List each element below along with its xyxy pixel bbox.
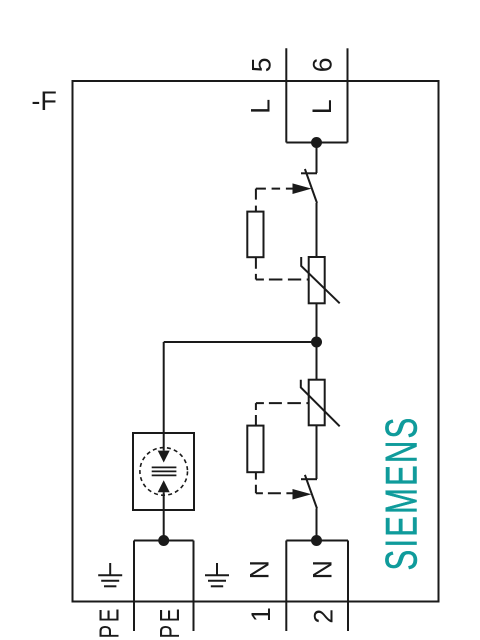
wire spark gap to PE node [163, 492, 165, 540]
varistor RV1 body [309, 257, 325, 303]
terminal lead 1 [285, 541, 287, 632]
node L junction [311, 137, 322, 148]
wire varistor RV2 to switch [316, 425, 318, 479]
enclosure box -F [73, 81, 439, 602]
terminal lead 6 [347, 48, 349, 142]
svg-text:SIEMENS: SIEMENS [377, 416, 427, 571]
wire node to PE branch horizontal [164, 341, 317, 343]
actuator arrow to switch F2 [293, 489, 312, 500]
terminal lead PE left [133, 541, 135, 632]
spark gap F3 box [133, 433, 194, 510]
resistor R1 dashed link to varistor RV1 [255, 257, 257, 279]
svg-text:N: N [308, 560, 338, 579]
svg-text:PE: PE [94, 606, 125, 639]
wire node to lower varistor [316, 342, 318, 380]
svg-text:-F: -F [31, 86, 56, 116]
switch F2 blade [305, 475, 317, 509]
wire N terminal bar [286, 540, 348, 542]
resistor R2 dashed link to varistor RV2 [255, 403, 257, 426]
ground symbol left [98, 563, 122, 586]
node mid junction [311, 337, 322, 348]
node PE junction [158, 535, 169, 546]
svg-text:PE: PE [155, 606, 186, 639]
svg-text:1: 1 [246, 607, 276, 622]
wire varistor to node [316, 303, 318, 342]
terminal lead 2 [347, 541, 349, 632]
wire L terminal bar [286, 142, 347, 144]
actuator arrow to switch F1 [293, 183, 312, 194]
svg-text:5: 5 [246, 58, 276, 73]
wire PE terminal bar [134, 540, 194, 542]
resistor R1 body [247, 212, 263, 258]
spark gap F3 dashed circle [140, 448, 188, 496]
svg-text:6: 6 [307, 58, 337, 73]
resistor R2 dashed link to switch F2 [255, 472, 257, 493]
node N junction [311, 535, 322, 546]
resistor R1 dashed link to switch F1 [255, 189, 257, 212]
wire PE branch vertical [163, 342, 165, 451]
switch F1 blade [305, 169, 317, 203]
switch F1 fixed contact tick [301, 172, 317, 174]
spark gap electrode plates [152, 467, 177, 475]
switch F2 fixed contact tick [301, 478, 317, 480]
spark gap top arrow [158, 451, 170, 463]
varistor RV2 diagonal [301, 380, 340, 427]
wire switch to varistor [316, 203, 318, 257]
ground symbol right [205, 563, 229, 586]
svg-text:N: N [245, 560, 275, 579]
svg-text:2: 2 [309, 609, 339, 624]
svg-text:L: L [307, 99, 337, 114]
resistor R2 body [247, 426, 263, 473]
terminal lead 5 [285, 48, 287, 142]
terminal lead PE right [193, 541, 195, 632]
wire switch F2 to N node [316, 509, 318, 541]
wire L bus upper [316, 143, 318, 174]
varistor RV2 body [309, 380, 325, 426]
spark gap bottom arrow [158, 480, 170, 492]
varistor RV1 diagonal [301, 257, 340, 303]
svg-text:L: L [246, 99, 276, 114]
